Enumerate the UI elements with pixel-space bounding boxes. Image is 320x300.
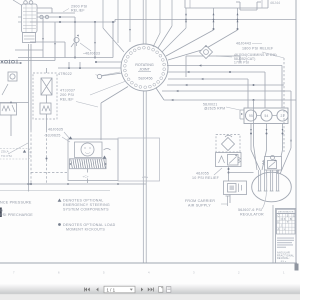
vertical x28.5 to bottom xyxy=(28,159,30,185)
left edge tiny fittings row xyxy=(5,60,8,63)
valve bank body V1 xyxy=(22,4,38,33)
status bar band xyxy=(0,294,300,300)
svg-text:O: O xyxy=(281,217,283,221)
riser with double up arrows at x186 xyxy=(185,8,187,28)
wire y68 into rotating joint xyxy=(58,67,121,69)
svg-text:DENOTES OPTIONAL LOAD: DENOTES OPTIONAL LOAD xyxy=(63,223,116,227)
wire top double x144 xyxy=(142,0,144,45)
svg-text:NCE PRESSURE: NCE PRESSURE xyxy=(0,201,32,205)
svg-text:B: B xyxy=(290,217,292,221)
air filter right detail xyxy=(238,184,240,193)
steering pump circle xyxy=(81,143,94,156)
wire y63 left cut xyxy=(0,62,22,64)
button first page xyxy=(85,288,90,292)
leader 46J055 xyxy=(214,168,222,175)
svg-text:AIR SUPPLY: AIR SUPPLY xyxy=(188,204,211,208)
wire top x103 diag xyxy=(102,0,104,28)
pilot dashed vertical x31 lower xyxy=(30,130,32,184)
wire top long y19.5 to right edge xyxy=(115,19,296,21)
pump section 21 xyxy=(277,110,288,121)
svg-text:46J0443: 46J0443 xyxy=(236,42,251,46)
leader regulator xyxy=(262,173,267,209)
wire relief to air filter xyxy=(228,167,230,182)
wire right y91 xyxy=(162,90,291,92)
toolbar band xyxy=(0,284,300,294)
toolbar page icon 2 xyxy=(167,287,171,293)
pump drain C xyxy=(282,124,284,151)
vertical drop x95 xyxy=(94,22,96,58)
wire y50 xyxy=(15,49,43,51)
wire y190 faint xyxy=(0,190,110,192)
svg-text:A: A xyxy=(278,227,280,231)
wire right y84.5 xyxy=(167,84,284,86)
steering pump inner box xyxy=(75,142,103,158)
wire right y66 xyxy=(167,65,282,67)
svg-text:46J44: 46J44 xyxy=(270,1,280,5)
tank suction tubes xyxy=(258,170,260,191)
button next page xyxy=(141,288,143,292)
svg-text:.XX =: .XX = xyxy=(280,261,287,263)
wire air inlet down xyxy=(229,195,231,204)
svg-text:PSI PRECHARGE: PSI PRECHARGE xyxy=(0,213,33,217)
air filter diamond F2 xyxy=(222,138,235,151)
vertical drop x75 xyxy=(74,17,76,58)
vertical x31 xyxy=(30,44,32,130)
pump drain A xyxy=(250,124,252,151)
relief 46J055 spring right xyxy=(238,157,241,163)
suction funnel lines right xyxy=(290,140,292,148)
svg-text:4TJJ037: 4TJJ037 xyxy=(60,89,75,93)
steering arc symbol xyxy=(104,149,111,151)
leader 46J034 xyxy=(216,56,232,57)
left edge scan mark xyxy=(0,208,2,218)
leader to joint from labels xyxy=(90,81,126,95)
top manifold box xyxy=(185,7,268,9)
svg-text:DECIMAL:: DECIMAL: xyxy=(277,257,290,260)
wire bottom double vertical xyxy=(142,91,144,263)
rotating joint port ring xyxy=(163,68,166,71)
regulator pilot circle xyxy=(271,156,275,160)
regulator inner square xyxy=(268,161,277,169)
wire right y79 xyxy=(168,78,248,80)
wire top diag from x172 xyxy=(171,0,173,26)
compensator symbol 46J0633 xyxy=(74,37,79,42)
check valve circles pair xyxy=(37,16,75,18)
svg-text:C: C xyxy=(278,213,280,217)
svg-text:SYSTEM COMPONENTS: SYSTEM COMPONENTS xyxy=(63,208,109,212)
riser with double up arrows B xyxy=(237,8,239,30)
sheet bottom border xyxy=(0,262,297,264)
svg-text:95: 95 xyxy=(249,114,253,118)
svg-text:1 / 1: 1 / 1 xyxy=(107,287,116,292)
svg-text:1800 PSI RELIEF: 1800 PSI RELIEF xyxy=(242,47,274,51)
svg-text:DENOTES OPTIONAL: DENOTES OPTIONAL xyxy=(63,199,104,203)
svg-text:46J0635: 46J0635 xyxy=(48,128,63,132)
left small gauge component xyxy=(8,72,17,81)
wire bottom diag to steering xyxy=(101,87,128,104)
vertical drop x43 xyxy=(42,17,44,58)
designator grid xyxy=(277,213,296,215)
wire right y100 xyxy=(156,88,164,100)
wire y57.5 long xyxy=(18,57,113,59)
steering extended box xyxy=(118,138,160,181)
rotating joint outer circle xyxy=(121,44,168,91)
regulator body xyxy=(265,157,282,171)
regulator spring xyxy=(263,160,265,165)
svg-text:REGULATOR: REGULATOR xyxy=(240,213,264,217)
wire relief to lattice xyxy=(46,95,48,103)
relief 46J055 check arrow xyxy=(219,156,225,163)
wire y172 to suction xyxy=(229,172,254,174)
vertical x113 from y22 down xyxy=(112,22,114,58)
relief 46J055 square xyxy=(228,155,239,166)
leader 46J0633 xyxy=(80,43,91,51)
pilot dashed wire y172.5 xyxy=(31,172,68,174)
valve bank lower section xyxy=(23,33,36,43)
wire top diag from x160 xyxy=(159,0,161,33)
wire left y62 xyxy=(96,61,121,63)
wire y60.5 xyxy=(0,60,55,62)
leader 1800 psi dashed xyxy=(262,52,284,58)
reservoir tank ellipse xyxy=(252,172,292,202)
denote triangle left xyxy=(69,136,73,139)
vertical drop x55 xyxy=(54,22,56,61)
steering valve end arrows xyxy=(69,163,71,165)
svg-text:+C+: +C+ xyxy=(142,175,148,179)
relief valve 46J055 box xyxy=(216,153,242,167)
vertical drop x65 xyxy=(64,42,66,58)
svg-text:EMERGENCY STEERING: EMERGENCY STEERING xyxy=(63,203,110,207)
svg-text:54: 54 xyxy=(265,114,269,118)
wire y22 long xyxy=(30,21,115,23)
diag riser A to joint xyxy=(166,30,214,56)
relief valve spring W xyxy=(40,103,51,114)
filter feed line xyxy=(186,55,240,57)
wire top x130 xyxy=(129,0,131,42)
svg-text:FROM CARRIER: FROM CARRIER xyxy=(185,199,215,203)
wire y8 from valve xyxy=(37,7,52,9)
filter diamond F1 xyxy=(200,46,213,59)
wire left y73 xyxy=(101,73,122,76)
valve bank left tab xyxy=(18,21,22,23)
toolbar page icon 1 xyxy=(159,287,163,293)
svg-text:58J0456: 58J0456 xyxy=(138,77,152,81)
sheet right border xyxy=(295,0,297,263)
svg-text:56J607-6 PSI: 56J607-6 PSI xyxy=(238,208,262,212)
svg-text:4TR022: 4TR022 xyxy=(58,72,72,76)
suction funnel lines xyxy=(251,150,260,170)
svg-text:X: X xyxy=(284,217,286,221)
svg-text:+C+: +C+ xyxy=(83,175,89,179)
steering outer box xyxy=(68,139,118,181)
svg-text:21: 21 xyxy=(281,114,285,118)
wire y13 xyxy=(37,12,75,14)
denote triangle right xyxy=(103,156,107,159)
steering control valve hatched xyxy=(70,159,107,169)
pump section 54 xyxy=(261,110,272,121)
svg-text:JOINT: JOINT xyxy=(139,68,150,72)
svg-text:ROTATING: ROTATING xyxy=(135,63,154,67)
title block outer xyxy=(272,205,274,263)
page number field xyxy=(104,286,135,293)
denote triangle at left leader xyxy=(23,150,26,153)
svg-text:RELIEF: RELIEF xyxy=(60,98,74,102)
svg-text:MOMENT KICKOUTS: MOMENT KICKOUTS xyxy=(66,228,105,232)
tolerance notes text xyxy=(277,238,294,239)
svg-text:1700 PSI: 1700 PSI xyxy=(234,61,249,65)
left valve box W xyxy=(0,103,17,115)
air filter diamond F2 dashed box xyxy=(216,135,240,153)
air filter inner square xyxy=(228,184,237,193)
wire y42 xyxy=(30,41,65,43)
diag riser B to joint xyxy=(205,30,238,49)
svg-text:10 PSI RELIEF: 10 PSI RELIEF xyxy=(192,176,220,180)
svg-text:O: O xyxy=(293,213,295,217)
svg-text:ZD(A: ZD(A xyxy=(1,150,9,154)
pump section 95 xyxy=(245,110,256,121)
vertical from left box down xyxy=(10,115,12,136)
bottom right corner mark xyxy=(295,264,299,271)
svg-text:200 PSI: 200 PSI xyxy=(60,93,74,97)
wire right y73 xyxy=(168,71,265,73)
air filter box xyxy=(224,181,247,195)
wire top x118 xyxy=(117,0,119,43)
pump inter links xyxy=(257,115,261,117)
vertical x28.5 xyxy=(28,44,30,103)
relief valve dashed enclosure xyxy=(33,73,57,119)
leader air supply xyxy=(221,203,228,205)
note bullet denotes optional load moment xyxy=(58,223,61,226)
svg-text:46J0633: 46J0633 xyxy=(85,52,100,56)
leader diagonal to labels xyxy=(8,143,28,154)
wire y102.5 left xyxy=(0,102,29,104)
designator header xyxy=(277,209,296,213)
wire x28.5 lower xyxy=(28,103,30,159)
svg-text:RELIEF: RELIEF xyxy=(71,9,85,13)
pump left port bracket xyxy=(240,109,244,111)
vertical tick x69 xyxy=(68,62,70,68)
junction dots on top line xyxy=(213,19,215,21)
svg-text:G: G xyxy=(0,209,3,213)
svg-text:@2625 RPM: @2625 RPM xyxy=(204,107,225,111)
pump housing rect xyxy=(244,108,288,124)
riser with double up arrows A xyxy=(213,8,215,30)
top right small box xyxy=(239,2,241,10)
relief valve spring element xyxy=(41,78,52,95)
note triangle denotes optional emergency steering xyxy=(58,199,62,202)
button prev page xyxy=(96,288,98,292)
vertical tick x80 xyxy=(79,62,81,68)
svg-text:TO PSI: TO PSI xyxy=(1,154,12,158)
valve bank top caps xyxy=(24,1,28,5)
pump drain B xyxy=(266,124,268,151)
wire y184 long xyxy=(0,183,146,185)
button last page xyxy=(148,288,153,292)
steering valve bottom port xyxy=(87,169,89,173)
pilot dashed vertical x46.5 lower xyxy=(46,130,48,184)
left cut text fragment bubble xyxy=(0,149,30,160)
breather arc xyxy=(225,135,232,137)
